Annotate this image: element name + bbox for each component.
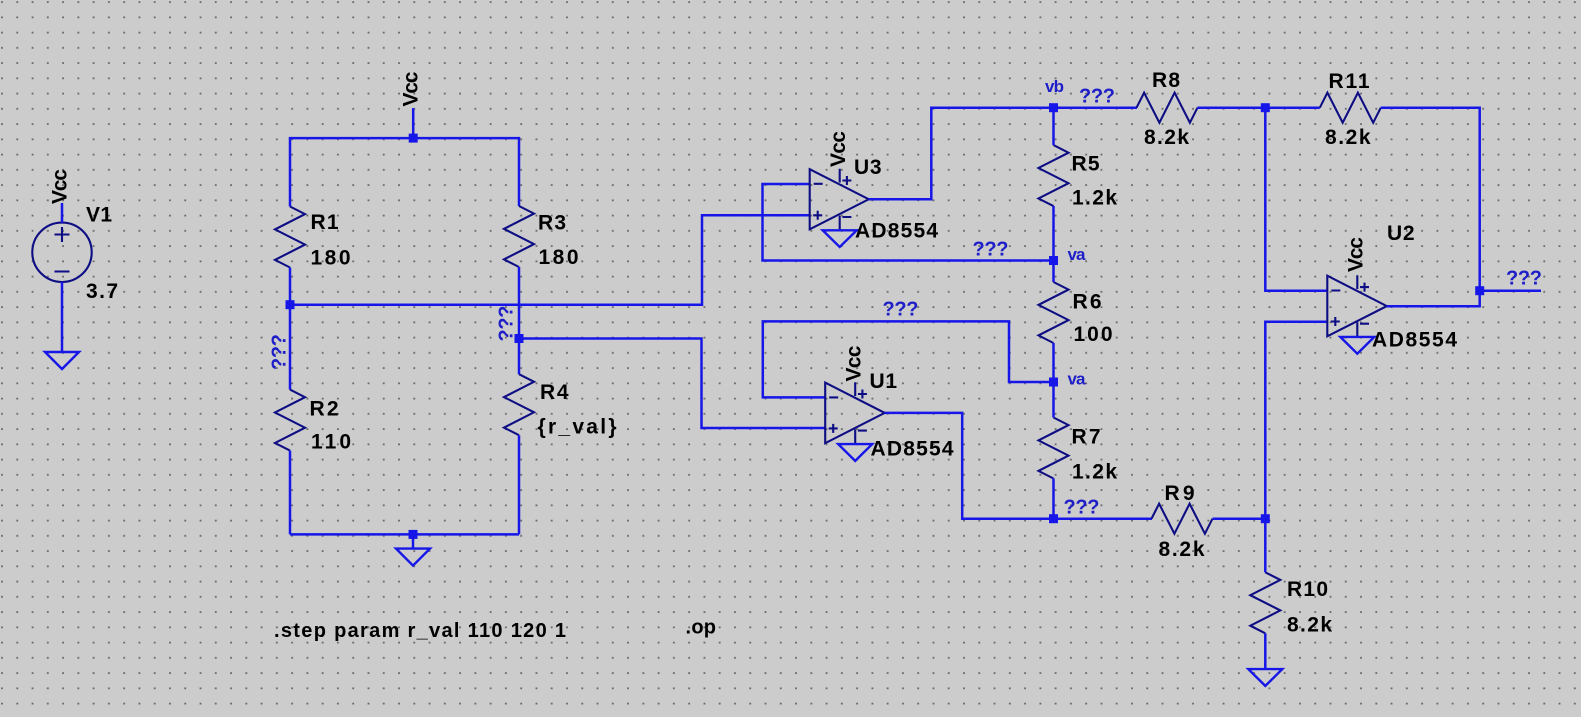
svg-text:1.2k: 1.2k	[1072, 187, 1117, 210]
svg-text:1.2k: 1.2k	[1072, 461, 1117, 484]
wire R5 leads	[1052, 108, 1055, 145]
voltage source V1	[32, 203, 91, 282]
wire U3 inverting input to node va	[763, 184, 1050, 261]
svg-text:???: ???	[1506, 268, 1542, 290]
svg-text:Vcc: Vcc	[400, 71, 423, 106]
svg-text:8.2k: 8.2k	[1287, 614, 1332, 637]
ground (U3)	[823, 230, 857, 247]
wire V1 to ground	[61, 282, 64, 352]
svg-text:180: 180	[539, 246, 579, 269]
svg-text:va: va	[1068, 370, 1087, 389]
resistor R9	[1152, 504, 1213, 534]
svg-text:U3: U3	[854, 156, 882, 179]
svg-text:R1: R1	[311, 211, 339, 234]
resistor R7	[1039, 418, 1069, 479]
wire U2 noninverting input	[1265, 322, 1327, 519]
svg-text:R8: R8	[1152, 69, 1180, 92]
junction node right mid	[515, 334, 524, 343]
svg-text:???: ???	[269, 334, 291, 370]
wire U3 output to vb rail	[869, 108, 1137, 200]
wire right rail R3-R4	[518, 267, 521, 374]
svg-text:R6: R6	[1073, 291, 1102, 314]
svg-text:8.2k: 8.2k	[1159, 538, 1205, 561]
resistor R10	[1250, 572, 1280, 633]
svg-text:U2: U2	[1387, 222, 1415, 245]
svg-text:110: 110	[311, 431, 351, 454]
svg-text:R11: R11	[1329, 70, 1370, 93]
svg-text:R4: R4	[540, 381, 569, 404]
svg-text:U1: U1	[870, 370, 898, 393]
svg-text:180: 180	[311, 247, 351, 270]
junction va lower	[1049, 378, 1058, 387]
op-amp U2	[1327, 275, 1387, 337]
junction R8/R11	[1261, 103, 1270, 112]
wire R10 leads	[1264, 519, 1267, 573]
wire U1 inverting input path	[763, 321, 1049, 397]
op-amp U1	[825, 382, 885, 444]
op-amp U3	[810, 169, 869, 231]
svg-text:8.2k: 8.2k	[1325, 126, 1371, 149]
svg-text:100: 100	[1074, 323, 1113, 346]
resistor R2	[275, 390, 305, 451]
wire ground stub	[412, 534, 415, 548]
wire R11 to feedback riser	[1381, 108, 1480, 291]
svg-text:R10: R10	[1287, 578, 1328, 601]
wire output stub	[1480, 289, 1541, 292]
wire A: left node to U3 noninverting input	[290, 215, 810, 304]
wire bridge top rail	[290, 138, 519, 206]
svg-text:R2: R2	[310, 398, 339, 421]
svg-text:{r_val}: {r_val}	[538, 416, 617, 439]
junction bottom node	[1049, 514, 1058, 523]
ground (V1)	[45, 352, 79, 369]
junction node left mid	[286, 300, 295, 309]
wire left rail R1-R2	[289, 268, 292, 390]
wire Vcc stub	[412, 108, 415, 138]
resistor R3	[504, 206, 534, 267]
wire R7 leads	[1052, 382, 1055, 418]
junction U2 output node	[1475, 286, 1484, 295]
wire B: right node to U1 noninverting input	[519, 339, 825, 429]
svg-text:R3: R3	[538, 212, 566, 235]
svg-text:AD8554: AD8554	[1372, 329, 1457, 352]
resistor R8	[1137, 93, 1198, 123]
svg-text:Vcc: Vcc	[827, 131, 850, 167]
wire R6 leads	[1052, 261, 1055, 283]
svg-text:8.2k: 8.2k	[1144, 126, 1189, 149]
svg-text:???: ???	[1079, 86, 1115, 108]
wire U1 output to bottom rail	[885, 413, 1152, 519]
svg-text:R5: R5	[1072, 153, 1100, 176]
svg-text:Vcc: Vcc	[49, 169, 72, 204]
svg-text:V1: V1	[86, 204, 112, 227]
junction Vcc tap	[409, 134, 418, 143]
ground (U1)	[838, 444, 872, 461]
svg-text:???: ???	[883, 299, 919, 321]
resistor R1	[275, 207, 305, 268]
resistor R5	[1039, 145, 1069, 206]
wire left rail bottom	[289, 451, 292, 535]
svg-text:Vcc: Vcc	[843, 345, 866, 381]
svg-text:AD8554: AD8554	[871, 438, 954, 461]
svg-text:.op: .op	[686, 617, 717, 639]
svg-text:va: va	[1068, 245, 1087, 264]
svg-text:.step param r_val 110 120 1: .step param r_val 110 120 1	[274, 620, 566, 642]
svg-text:3.7: 3.7	[86, 280, 118, 303]
resistor R4	[504, 374, 534, 435]
junction vb	[1049, 103, 1058, 112]
ground (U2)	[1340, 337, 1374, 354]
wire R9 to R10 node	[1213, 517, 1266, 520]
svg-text:AD8554: AD8554	[855, 220, 938, 243]
wire bottom rail	[290, 533, 519, 536]
junction va upper	[1049, 256, 1058, 265]
ground (R10)	[1248, 669, 1282, 686]
svg-text:R9: R9	[1165, 482, 1195, 505]
svg-text:???: ???	[973, 239, 1009, 261]
resistor R11	[1320, 93, 1381, 123]
junction ground tap	[409, 530, 418, 539]
wire vb rail to R11	[1198, 106, 1320, 109]
svg-text:???: ???	[1064, 497, 1100, 519]
svg-text:Vcc: Vcc	[1345, 237, 1368, 272]
ground (bridge)	[396, 549, 430, 566]
wire U2 output	[1387, 291, 1480, 307]
svg-text:???: ???	[496, 306, 518, 342]
resistor R6	[1039, 282, 1069, 343]
wire right rail bottom	[518, 435, 521, 534]
svg-text:vb: vb	[1045, 77, 1064, 96]
wire U2 inverting input	[1265, 108, 1327, 291]
svg-text:R7: R7	[1072, 426, 1101, 449]
junction R9/R10	[1261, 514, 1270, 523]
